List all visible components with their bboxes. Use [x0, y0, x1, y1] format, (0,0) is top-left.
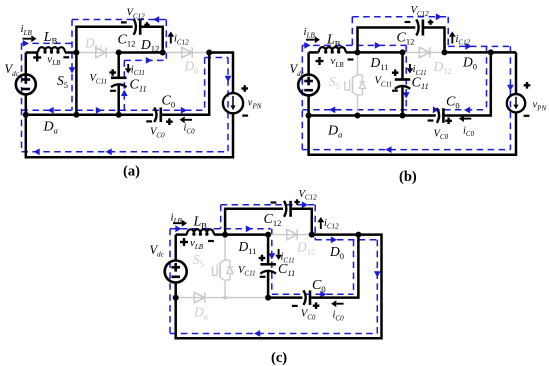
svg-text:vLB: vLB — [47, 53, 61, 67]
svg-text:VC12: VC12 — [411, 5, 430, 18]
svg-text:iC11: iC11 — [131, 64, 145, 77]
svg-text:iC12: iC12 — [456, 34, 471, 47]
svg-text:D0: D0 — [184, 59, 199, 76]
svg-text:vLB: vLB — [331, 55, 345, 69]
svg-text:D11: D11 — [84, 36, 103, 53]
svg-text:iLB: iLB — [21, 23, 33, 37]
svg-text:C0: C0 — [312, 278, 326, 294]
svg-text:VC12: VC12 — [127, 8, 146, 21]
svg-text:D12: D12 — [140, 37, 159, 54]
svg-text:D12: D12 — [433, 59, 452, 76]
svg-text:vPN: vPN — [533, 100, 547, 113]
svg-text:Vdc: Vdc — [290, 62, 305, 78]
svg-text:D0: D0 — [462, 55, 477, 72]
svg-text:S5: S5 — [57, 73, 68, 90]
svg-text:D0: D0 — [329, 244, 344, 261]
svg-text:S5: S5 — [329, 74, 340, 91]
svg-text:VC12: VC12 — [299, 189, 318, 202]
svg-text:LB: LB — [326, 33, 341, 49]
svg-text:VC11: VC11 — [238, 265, 256, 278]
svg-text:VC0: VC0 — [150, 127, 165, 140]
svg-text:iC11: iC11 — [413, 64, 427, 77]
svg-text:S5: S5 — [193, 252, 204, 269]
svg-text:iC12: iC12 — [324, 218, 339, 231]
svg-text:C12: C12 — [118, 33, 136, 49]
svg-text:VC0: VC0 — [301, 309, 316, 322]
svg-text:(b): (b) — [399, 169, 417, 185]
svg-text:iLB: iLB — [171, 211, 183, 225]
svg-text:LB: LB — [43, 30, 58, 46]
svg-text:Da: Da — [43, 120, 58, 136]
svg-text:C11: C11 — [412, 75, 429, 91]
svg-text:C12: C12 — [397, 31, 415, 47]
svg-text:iLB: iLB — [304, 26, 316, 40]
svg-text:C0: C0 — [162, 94, 176, 110]
svg-text:Vdc: Vdc — [150, 243, 165, 259]
svg-text:D12: D12 — [296, 240, 315, 257]
svg-text:VC11: VC11 — [90, 73, 108, 86]
svg-text:iC0: iC0 — [184, 123, 196, 136]
svg-text:Vdc: Vdc — [5, 62, 20, 78]
svg-text:iC12: iC12 — [174, 34, 189, 47]
svg-text:VC11: VC11 — [375, 76, 393, 89]
svg-text:iC0: iC0 — [333, 310, 345, 323]
svg-text:iC11: iC11 — [281, 252, 295, 265]
svg-text:LB: LB — [193, 215, 208, 231]
svg-text:Da: Da — [327, 124, 342, 140]
svg-text:(c): (c) — [271, 350, 287, 366]
svg-text:C12: C12 — [264, 212, 282, 228]
svg-text:Da: Da — [193, 305, 208, 322]
svg-text:D11: D11 — [370, 55, 389, 72]
svg-text:VC0: VC0 — [434, 128, 449, 141]
svg-text:C0: C0 — [446, 95, 460, 111]
svg-text:D11: D11 — [238, 239, 257, 256]
svg-text:(a): (a) — [123, 164, 140, 180]
svg-text:vPN: vPN — [248, 98, 262, 111]
svg-text:C11: C11 — [130, 78, 147, 94]
svg-text:vLB: vLB — [190, 237, 204, 251]
svg-text:iC0: iC0 — [463, 125, 475, 138]
